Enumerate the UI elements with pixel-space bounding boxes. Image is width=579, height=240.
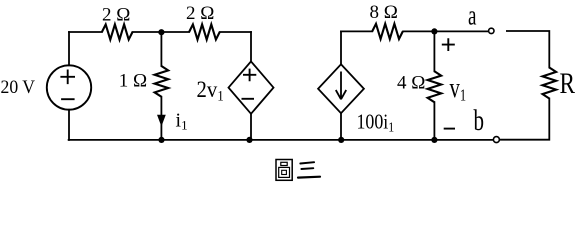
terminal a open circle <box>489 28 494 33</box>
svg-text:2 Ω: 2 Ω <box>186 3 214 24</box>
junction dot bottom of 2v1 <box>246 137 252 143</box>
resistor R load (vertical right) <box>543 68 557 99</box>
svg-text:2v1: 2v1 <box>197 77 224 104</box>
resistor R1 2-ohm (top left) <box>102 24 133 39</box>
voltage source plus sign <box>60 70 75 85</box>
wire terminal a to R <box>507 31 549 68</box>
resistor 8-ohm (top right) <box>372 24 403 39</box>
svg-text:i1: i1 <box>176 110 188 133</box>
current source arrow <box>336 72 346 100</box>
svg-text:4 Ω: 4 Ω <box>397 73 425 94</box>
dependent voltage source 2v1 diamond <box>229 61 274 113</box>
svg-text:1 Ω: 1 Ω <box>119 71 147 92</box>
wire top-left corner to source <box>68 32 70 65</box>
svg-text:2 Ω: 2 Ω <box>102 4 130 25</box>
svg-text:b: b <box>474 103 484 137</box>
voltage source minus sign <box>61 98 75 100</box>
svg-text:8 Ω: 8 Ω <box>370 2 398 23</box>
wire R bottom to terminal b <box>500 99 550 140</box>
wire bottom rail <box>69 139 494 141</box>
junction dot bottom of 4-ohm <box>431 137 437 143</box>
wire 4-ohm branch <box>433 31 435 139</box>
resistor 4-ohm (vertical) <box>428 71 442 102</box>
svg-text:R: R <box>560 66 576 100</box>
resistor R2 2-ohm (top middle) <box>189 24 220 39</box>
junction dot bottom of 1-ohm <box>158 137 164 143</box>
junction dot top of 4-ohm <box>431 28 437 34</box>
junction dot top of 1-ohm <box>158 29 164 35</box>
current arrow i1 <box>158 115 166 125</box>
wire 2v1 top lead <box>250 32 252 61</box>
caption figure-three char san strokes <box>298 162 320 177</box>
dependent current source 100i1 diamond <box>318 64 364 113</box>
junction dot bottom of current source <box>338 137 344 143</box>
wire source bottom to bottom rail <box>68 110 70 140</box>
svg-text:100i1: 100i1 <box>357 111 395 134</box>
svg-text:20 V: 20 V <box>1 76 36 97</box>
wire 1-ohm branch <box>160 32 162 140</box>
caption tu inner top small box <box>281 162 287 165</box>
caption tu innermost box <box>282 170 287 174</box>
caption figure-three char tu outer box <box>276 160 292 181</box>
wire current-source leads <box>340 31 342 139</box>
svg-text:a: a <box>468 1 477 31</box>
wire top-left horizontal <box>69 31 251 33</box>
v1 polarity plus sign <box>442 38 455 51</box>
v1 polarity minus sign <box>444 128 455 130</box>
wire top-right horizontal <box>341 30 489 32</box>
svg-text:v1: v1 <box>450 73 467 105</box>
2v1 plus sign <box>243 69 256 82</box>
voltage source V1 20V circle <box>47 65 91 109</box>
caption tu inner middle box <box>279 167 290 177</box>
terminal b open circle <box>493 137 499 143</box>
wire 2v1 bottom lead <box>250 114 252 140</box>
resistor 1-ohm (vertical) <box>155 66 169 97</box>
2v1 minus sign <box>242 98 255 100</box>
